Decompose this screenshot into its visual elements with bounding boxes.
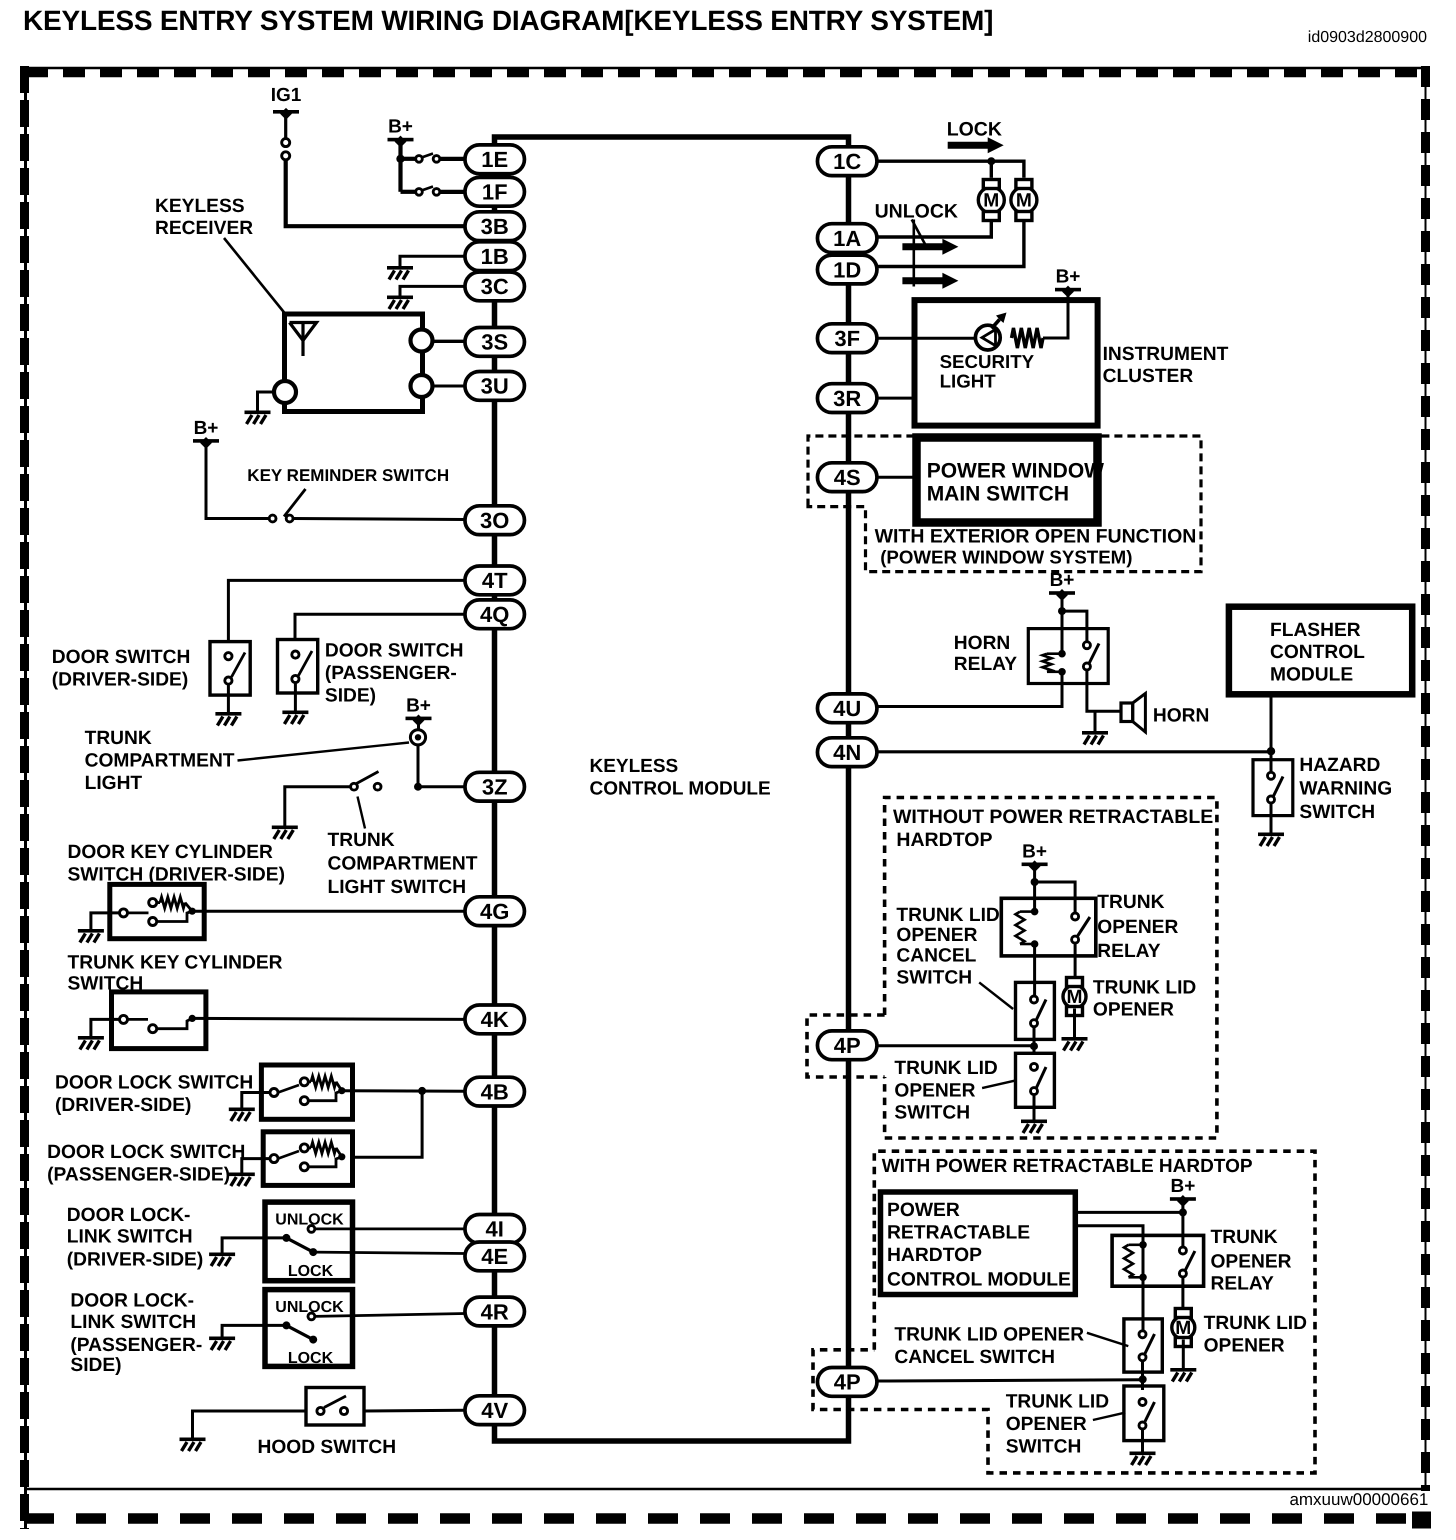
wire B+ to relay 1 junction <box>1033 864 1036 882</box>
svg-text:SWITCH: SWITCH <box>896 968 972 989</box>
svg-text:B+: B+ <box>1050 570 1075 591</box>
svg-text:4S: 4S <box>834 465 861 490</box>
door lock-link switch passenger label <box>70 1291 202 1377</box>
svg-text:4Q: 4Q <box>480 602 509 627</box>
svg-text:3S: 3S <box>481 330 508 355</box>
wire B+ junction to switch 1E <box>401 157 416 161</box>
ground for lock-link passenger <box>209 1337 235 1351</box>
wire lock-link passenger unlock to pin 4R <box>315 1314 465 1317</box>
svg-text:MODULE: MODULE <box>1270 665 1353 686</box>
svg-text:RELAY: RELAY <box>954 654 1017 675</box>
wire 3Z junction to pin 3Z <box>418 785 465 788</box>
horn speaker <box>1121 694 1145 733</box>
wire lock-link driver to ground <box>222 1238 286 1253</box>
keyless receiver label <box>155 196 253 239</box>
door lock switch (driver-side) <box>261 1065 352 1119</box>
svg-text:LIGHT SWITCH: LIGHT SWITCH <box>328 877 467 898</box>
pin 4Q <box>465 600 525 629</box>
svg-text:LIGHT: LIGHT <box>940 371 997 392</box>
svg-text:4T: 4T <box>482 568 508 593</box>
svg-text:CONTROL: CONTROL <box>1270 642 1365 663</box>
power node B+ (instrument cluster) <box>1055 267 1081 298</box>
svg-text:TRUNK LID: TRUNK LID <box>1093 978 1197 999</box>
svg-text:LOCK: LOCK <box>288 1350 334 1367</box>
svg-text:3C: 3C <box>481 274 509 299</box>
trunk lid opener switch 1 <box>1016 1053 1055 1107</box>
junction dot relay 1 feed <box>1031 878 1039 886</box>
svg-text:4E: 4E <box>481 1244 508 1269</box>
door lock switch (passenger-side) <box>263 1132 352 1186</box>
door lock motor 1 <box>978 180 1004 221</box>
wire pin 3R to cluster <box>877 397 915 400</box>
svg-text:LIGHT: LIGHT <box>85 773 143 794</box>
LOCK direction arrow <box>948 137 1004 153</box>
wire trunk light switch left to ground <box>285 787 351 826</box>
svg-text:M: M <box>1016 191 1032 212</box>
wire junction to motor 1 <box>990 161 993 178</box>
svg-text:OPENER: OPENER <box>1211 1252 1292 1273</box>
door switch passenger-side label <box>325 641 464 707</box>
wire lock-link passenger to ground <box>222 1325 286 1336</box>
callout cancel switch 1 <box>979 982 1013 1009</box>
wire hazard switch to ground <box>1270 803 1273 833</box>
callout cancel switch 2 <box>1087 1333 1128 1346</box>
svg-text:M: M <box>1175 1318 1191 1339</box>
receiver terminal to 3S <box>411 330 433 352</box>
power retractable hardtop control module box <box>881 1192 1076 1295</box>
svg-text:3B: 3B <box>481 214 509 239</box>
svg-text:4N: 4N <box>833 740 861 765</box>
svg-text:LINK SWITCH: LINK SWITCH <box>67 1227 193 1248</box>
svg-text:4R: 4R <box>481 1299 509 1324</box>
dashed notch around pin 4P <box>807 1015 885 1077</box>
ground for door lock sw driver <box>229 1108 255 1122</box>
door switch driver-side label <box>52 647 191 691</box>
svg-text:3O: 3O <box>480 508 509 533</box>
svg-text:CONTROL MODULE: CONTROL MODULE <box>887 1270 1071 1291</box>
pin 1E <box>465 145 525 174</box>
callout opener switch 2 <box>1093 1413 1126 1420</box>
wire switch to pin 1F <box>440 190 465 194</box>
svg-text:4K: 4K <box>481 1007 509 1032</box>
pin 4U <box>817 694 877 723</box>
hood switch <box>306 1388 364 1426</box>
wire trunk key cyl to ground <box>91 1019 120 1036</box>
wire relay 2 coil to cancel switch 2 <box>1142 1277 1145 1332</box>
pin 4E <box>465 1242 525 1271</box>
wire junction to relay 2 contact <box>1181 1212 1184 1248</box>
junction dot motor 1 feed <box>987 157 995 165</box>
wire 4B junction down to passenger switch <box>353 1091 423 1157</box>
wire B+ junction down to 1F branch <box>398 159 402 192</box>
svg-text:TRUNK LID: TRUNK LID <box>894 1058 998 1079</box>
wire junction to relay 1 contact <box>1035 882 1076 914</box>
svg-text:M: M <box>983 191 999 212</box>
trunk key cylinder switch <box>112 992 206 1049</box>
trunk lid opener motor 2 <box>1172 1309 1195 1347</box>
svg-text:id0903d2800900: id0903d2800900 <box>1308 29 1427 46</box>
svg-text:(DRIVER-SIDE): (DRIVER-SIDE) <box>55 1095 191 1116</box>
wire horn relay coil to pin 4U <box>877 684 1062 707</box>
junction dot horn relay feed <box>1058 607 1066 615</box>
callout line trunk light label to bulb <box>238 743 410 761</box>
wire pin 1B to ground <box>400 256 465 266</box>
UNLOCK arrow 1 <box>902 239 958 255</box>
svg-text:IG1: IG1 <box>271 85 302 106</box>
svg-text:(POWER WINDOW SYSTEM): (POWER WINDOW SYSTEM) <box>880 547 1132 568</box>
trunk lid opener motor 1 label <box>1093 978 1197 1021</box>
svg-text:WARNING: WARNING <box>1299 779 1392 800</box>
dashed box with power retractable hardtop <box>813 1151 1315 1473</box>
svg-text:(PASSENGER-SIDE): (PASSENGER-SIDE) <box>47 1165 230 1186</box>
svg-text:TRUNK: TRUNK <box>1097 892 1164 913</box>
svg-text:SIDE): SIDE) <box>325 686 376 707</box>
flasher control module box <box>1229 607 1412 695</box>
wire junction to relay contact <box>1062 611 1087 644</box>
svg-text:3F: 3F <box>834 326 860 351</box>
wire IG1 switch to 3B <box>286 159 465 226</box>
svg-text:CANCEL: CANCEL <box>896 946 976 967</box>
wire opener switch 2 to ground <box>1141 1429 1144 1452</box>
dashed box without power retractable hardtop <box>885 798 1217 1139</box>
junction dot pin 4P wire 2 <box>1139 1375 1147 1383</box>
trunk lid opener switch 2 <box>1124 1386 1164 1441</box>
svg-text:DOOR KEY CYLINDER: DOOR KEY CYLINDER <box>68 842 274 863</box>
svg-text:HOOD SWITCH: HOOD SWITCH <box>258 1437 397 1458</box>
svg-text:3R: 3R <box>833 386 861 411</box>
power node B+ (top) <box>388 117 414 148</box>
door lock-link switch (passenger-side) <box>265 1290 353 1367</box>
pin 4T <box>465 566 525 595</box>
wire opener switch 1 to ground <box>1033 1095 1036 1120</box>
trunk compartment light bulb <box>410 730 425 745</box>
svg-text:INSTRUMENT: INSTRUMENT <box>1103 344 1229 365</box>
svg-text:DOOR LOCK SWITCH: DOOR LOCK SWITCH <box>47 1142 245 1163</box>
LOCK label <box>947 119 1002 141</box>
power retractable hardtop control module label <box>887 1200 1071 1291</box>
instrument cluster box <box>915 300 1098 426</box>
ground for lock-link driver <box>209 1253 235 1267</box>
hazard warning switch <box>1253 760 1293 816</box>
svg-text:SECURITY: SECURITY <box>940 351 1035 372</box>
svg-text:RECEIVER: RECEIVER <box>155 218 253 239</box>
power node B+ (trunk light) <box>406 695 432 726</box>
trunk compartment light switch contacts <box>351 772 381 791</box>
wire pin 1C to motors <box>877 161 1024 178</box>
pin 4P <box>817 1031 877 1060</box>
junction dot B+ branch <box>396 155 404 163</box>
svg-text:4P: 4P <box>834 1033 861 1058</box>
trunk opener relay 2 coil <box>1124 1241 1147 1281</box>
svg-text:4V: 4V <box>481 1398 508 1423</box>
wire horn relay contact to horn <box>1087 670 1121 711</box>
svg-text:LOCK: LOCK <box>288 1263 334 1280</box>
svg-text:4P: 4P <box>834 1370 861 1395</box>
junction dot 4B wire <box>418 1087 426 1095</box>
pin 4I <box>465 1215 525 1244</box>
UNLOCK leader line <box>912 220 925 287</box>
svg-text:B+: B+ <box>1056 267 1081 288</box>
svg-text:1F: 1F <box>482 180 508 205</box>
key reminder switch contacts <box>269 489 305 522</box>
doc id id0903d2800900 <box>1308 29 1427 46</box>
svg-text:(DRIVER-SIDE): (DRIVER-SIDE) <box>67 1250 203 1271</box>
svg-text:SWITCH: SWITCH <box>1299 802 1375 823</box>
svg-text:DOOR LOCK-: DOOR LOCK- <box>67 1205 191 1226</box>
svg-text:POWER: POWER <box>887 1200 960 1221</box>
svg-text:KEYLESS: KEYLESS <box>590 756 679 777</box>
horn relay box <box>1028 629 1108 684</box>
border top dashed <box>21 68 1430 73</box>
svg-text:M: M <box>1067 987 1083 1008</box>
border bottom dashed + inner line <box>24 1489 1431 1529</box>
ground for 1B <box>387 266 413 280</box>
svg-text:(DRIVER-SIDE): (DRIVER-SIDE) <box>52 670 188 691</box>
svg-text:OPENER: OPENER <box>1006 1414 1087 1435</box>
trunk lid opener cancel switch 2 <box>1124 1319 1162 1372</box>
svg-text:DOOR LOCK-: DOOR LOCK- <box>70 1291 194 1312</box>
power node IG1 terminal <box>271 85 302 120</box>
wire pin 4N to hazard junction <box>877 750 1271 753</box>
wire relay 1 contact to trunk lid opener motor <box>1074 943 1077 982</box>
svg-text:1C: 1C <box>833 149 861 174</box>
svg-text:HAZARD: HAZARD <box>1299 755 1380 776</box>
svg-text:B+: B+ <box>406 695 431 716</box>
figure id amxuuw00000661 <box>1289 1490 1428 1509</box>
wire junction into hazard switch <box>1270 752 1273 773</box>
trunk opener relay 2 label <box>1211 1227 1292 1295</box>
antenna symbol <box>290 323 317 357</box>
wire receiver to pin 3S <box>433 340 466 343</box>
UNLOCK arrow 2 <box>902 273 958 289</box>
svg-text:COMPARTMENT: COMPARTMENT <box>328 854 478 875</box>
wire IG1 down to switch <box>284 113 287 139</box>
trunk lid opener switch 1 label <box>894 1058 998 1124</box>
svg-text:RETRACTABLE: RETRACTABLE <box>887 1223 1030 1244</box>
wire B+ to horn relay junction <box>1061 593 1064 611</box>
pin 1B <box>465 242 525 271</box>
ground for trunk lid opener motor 1 <box>1062 1037 1088 1051</box>
switch contact pair on 1E feed <box>416 154 440 163</box>
wire pin 4P to junction 2 <box>877 1380 1143 1381</box>
trunk key cylinder switch label <box>68 953 283 995</box>
wire pin 4P to junction 1 <box>877 1044 1034 1047</box>
svg-text:1D: 1D <box>833 257 861 282</box>
svg-text:B+: B+ <box>1022 841 1047 862</box>
wire lock-link driver unlock to pin 4I <box>315 1228 465 1231</box>
trunk lid opener cancel switch 1 <box>1016 982 1055 1039</box>
wire B+ into cluster to resistor <box>1043 290 1068 338</box>
security light label <box>940 351 1035 392</box>
power node B+ (horn relay) <box>1049 570 1075 601</box>
hood switch label <box>258 1437 397 1458</box>
junction dot hazard <box>1267 747 1275 755</box>
svg-text:DOOR SWITCH: DOOR SWITCH <box>52 647 191 668</box>
ground for door key cyl switch <box>78 929 104 943</box>
with power retractable hardtop label <box>882 1156 1253 1177</box>
wire hood switch to ground <box>193 1411 307 1438</box>
svg-text:TRUNK: TRUNK <box>85 728 152 749</box>
svg-text:1E: 1E <box>481 147 508 172</box>
svg-text:HARDTOP: HARDTOP <box>887 1245 982 1266</box>
svg-text:1B: 1B <box>481 244 509 269</box>
trunk opener relay 2 contact <box>1179 1247 1195 1277</box>
security light LED <box>975 313 1006 351</box>
pin 3F <box>817 324 877 353</box>
trunk opener relay 2 box <box>1112 1235 1204 1286</box>
pin 4B <box>465 1077 525 1106</box>
svg-text:POWER WINDOW: POWER WINDOW <box>927 460 1104 483</box>
ground for trunk lid opener switch 2 <box>1130 1452 1156 1466</box>
svg-text:SIDE): SIDE) <box>70 1355 121 1376</box>
without power retractable hardtop label <box>893 806 1213 851</box>
svg-text:HORN: HORN <box>1153 706 1210 727</box>
ground for horn <box>1082 731 1108 745</box>
svg-text:TRUNK KEY CYLINDER: TRUNK KEY CYLINDER <box>68 953 283 974</box>
trunk opener relay 1 label <box>1097 892 1178 962</box>
wire trunk key cyl to pin 4K <box>192 1018 465 1019</box>
wire relay 1 coil to cancel switch 1 <box>1033 956 1036 997</box>
svg-text:RELAY: RELAY <box>1211 1274 1274 1295</box>
svg-text:TRUNK LID: TRUNK LID <box>896 905 1000 926</box>
wire door key cyl to ground <box>91 913 120 929</box>
svg-text:MAIN SWITCH: MAIN SWITCH <box>927 483 1069 506</box>
wire flasher module down to junction <box>1270 694 1273 750</box>
door key cylinder switch (driver-side) <box>110 884 204 938</box>
ground for trunk lid opener motor 2 <box>1170 1368 1196 1382</box>
wire cancel switch 2 to junction 2 <box>1141 1361 1144 1390</box>
pin 1C <box>817 147 877 176</box>
wire door lock sw driver to pin 4B <box>342 1089 465 1093</box>
svg-text:WITH EXTERIOR OPEN FUNCTION: WITH EXTERIOR OPEN FUNCTION <box>875 526 1197 548</box>
svg-text:HORN: HORN <box>954 633 1011 654</box>
flasher control module label <box>1270 620 1365 686</box>
ground for hazard switch <box>1258 833 1284 847</box>
wire door key cyl to pin 4G <box>192 910 465 913</box>
ground for trunk lid opener switch 1 <box>1021 1120 1047 1134</box>
ground for trunk light switch <box>272 826 298 840</box>
pin 3C <box>465 272 525 301</box>
pin 4K <box>465 1005 525 1034</box>
svg-text:B+: B+ <box>1170 1176 1195 1197</box>
switch contact pair on 1F feed <box>416 187 440 196</box>
svg-text:WITHOUT POWER RETRACTABLE: WITHOUT POWER RETRACTABLE <box>893 806 1213 828</box>
svg-text:CANCEL SWITCH: CANCEL SWITCH <box>894 1347 1055 1368</box>
wire B+ down to junction 2 <box>1181 1199 1184 1212</box>
svg-text:1A: 1A <box>833 226 861 251</box>
title text KEYLESS ENTRY SYSTEM WIRING DIAGRAM <box>23 5 993 36</box>
svg-text:CONTROL MODULE: CONTROL MODULE <box>590 779 771 800</box>
horn relay label <box>954 633 1017 675</box>
wire receiver ground <box>258 392 275 411</box>
wire pin 4S to power window main switch <box>877 476 916 479</box>
wire control module to relay 2 coil <box>1075 1226 1143 1243</box>
wire motor 2 to ground <box>1182 1340 1185 1369</box>
pin 3B <box>465 212 525 241</box>
ground for trunk key cyl switch <box>78 1036 104 1050</box>
svg-text:4B: 4B <box>481 1079 509 1104</box>
trunk lid opener motor 2 label <box>1204 1313 1308 1357</box>
ground for receiver <box>245 411 271 425</box>
horn relay contact <box>1083 642 1099 670</box>
power window main switch box <box>917 438 1098 523</box>
power node B+ (key reminder) <box>193 418 219 449</box>
pin 3R <box>817 384 877 413</box>
trunk opener relay 1 coil <box>1016 882 1039 956</box>
svg-text:KEYLESS: KEYLESS <box>155 196 245 217</box>
junction dot pin 4P wire 1 <box>1030 1042 1038 1050</box>
pin 4N <box>817 738 877 767</box>
svg-text:B+: B+ <box>388 117 413 138</box>
svg-text:HARDTOP: HARDTOP <box>896 829 992 851</box>
trunk lid opener cancel switch 1 label <box>896 905 1000 989</box>
horn relay coil <box>1043 611 1066 683</box>
callout opener switch 1 <box>982 1081 1015 1088</box>
wire B+ down to key reminder switch <box>206 442 269 519</box>
svg-text:COMPARTMENT: COMPARTMENT <box>85 751 235 772</box>
wire trunk light to 3Z junction <box>417 745 420 787</box>
svg-text:TRUNK LID OPENER: TRUNK LID OPENER <box>894 1325 1084 1346</box>
svg-text:B+: B+ <box>194 418 219 439</box>
callout line light switch label <box>358 797 366 829</box>
wire motor 1 to ground <box>1073 1009 1076 1038</box>
ignition switch contacts <box>282 139 290 160</box>
svg-text:3Z: 3Z <box>482 775 508 800</box>
wire door switch driver to ground <box>227 684 230 712</box>
dashed box with exterior open function <box>808 436 1201 572</box>
pin 1F <box>465 177 525 206</box>
pin 4G <box>465 897 525 926</box>
keyless control module U1 box <box>495 137 849 1441</box>
svg-text:4I: 4I <box>486 1217 504 1242</box>
svg-text:FLASHER: FLASHER <box>1270 620 1361 641</box>
wire pin 3F to security light <box>877 337 977 340</box>
door lock-link switch driver label <box>67 1205 203 1271</box>
svg-text:(PASSENGER-: (PASSENGER- <box>325 663 457 684</box>
svg-text:CLUSTER: CLUSTER <box>1103 366 1194 387</box>
ground for 3C <box>387 296 413 310</box>
with exterior open function label <box>875 526 1197 568</box>
trunk compartment light label <box>85 728 235 794</box>
svg-text:4U: 4U <box>833 696 861 721</box>
svg-text:KEY REMINDER SWITCH: KEY REMINDER SWITCH <box>247 466 449 485</box>
wire switch to pin 1E <box>440 157 465 161</box>
svg-text:TRUNK: TRUNK <box>1211 1227 1278 1248</box>
wire pin 3C to ground <box>400 286 465 295</box>
door lock-link switch (driver-side) <box>265 1202 353 1281</box>
trunk lid opener cancel switch 2 label <box>894 1325 1084 1369</box>
ground for door lock sw passenger <box>229 1173 255 1187</box>
wire door switch passenger to ground <box>294 683 297 711</box>
trunk opener relay 1 contact <box>1072 913 1090 943</box>
pin 1D <box>817 255 877 284</box>
receiver ground terminal <box>274 381 296 403</box>
wire hood switch to pin 4V <box>364 1409 465 1413</box>
wire motor 2 to pin 1D <box>877 222 1024 267</box>
wire pin 4Q to door switch passenger <box>295 614 465 639</box>
junction dot relay 2 feed <box>1179 1208 1187 1216</box>
svg-text:OPENER: OPENER <box>1093 1000 1174 1021</box>
wire B+ down to junction <box>398 140 402 159</box>
power node B+ (trunk opener relay 1) <box>1022 841 1048 872</box>
svg-text:LINK SWITCH: LINK SWITCH <box>70 1312 196 1333</box>
wire motor 1 to pin 1A <box>877 222 991 237</box>
wire door lock sw driver to ground <box>242 1093 270 1108</box>
resistor (security light) <box>1012 328 1044 348</box>
keyless control module label <box>590 756 771 800</box>
svg-text:UNLOCK: UNLOCK <box>875 201 958 223</box>
pin 3Z <box>465 772 525 801</box>
